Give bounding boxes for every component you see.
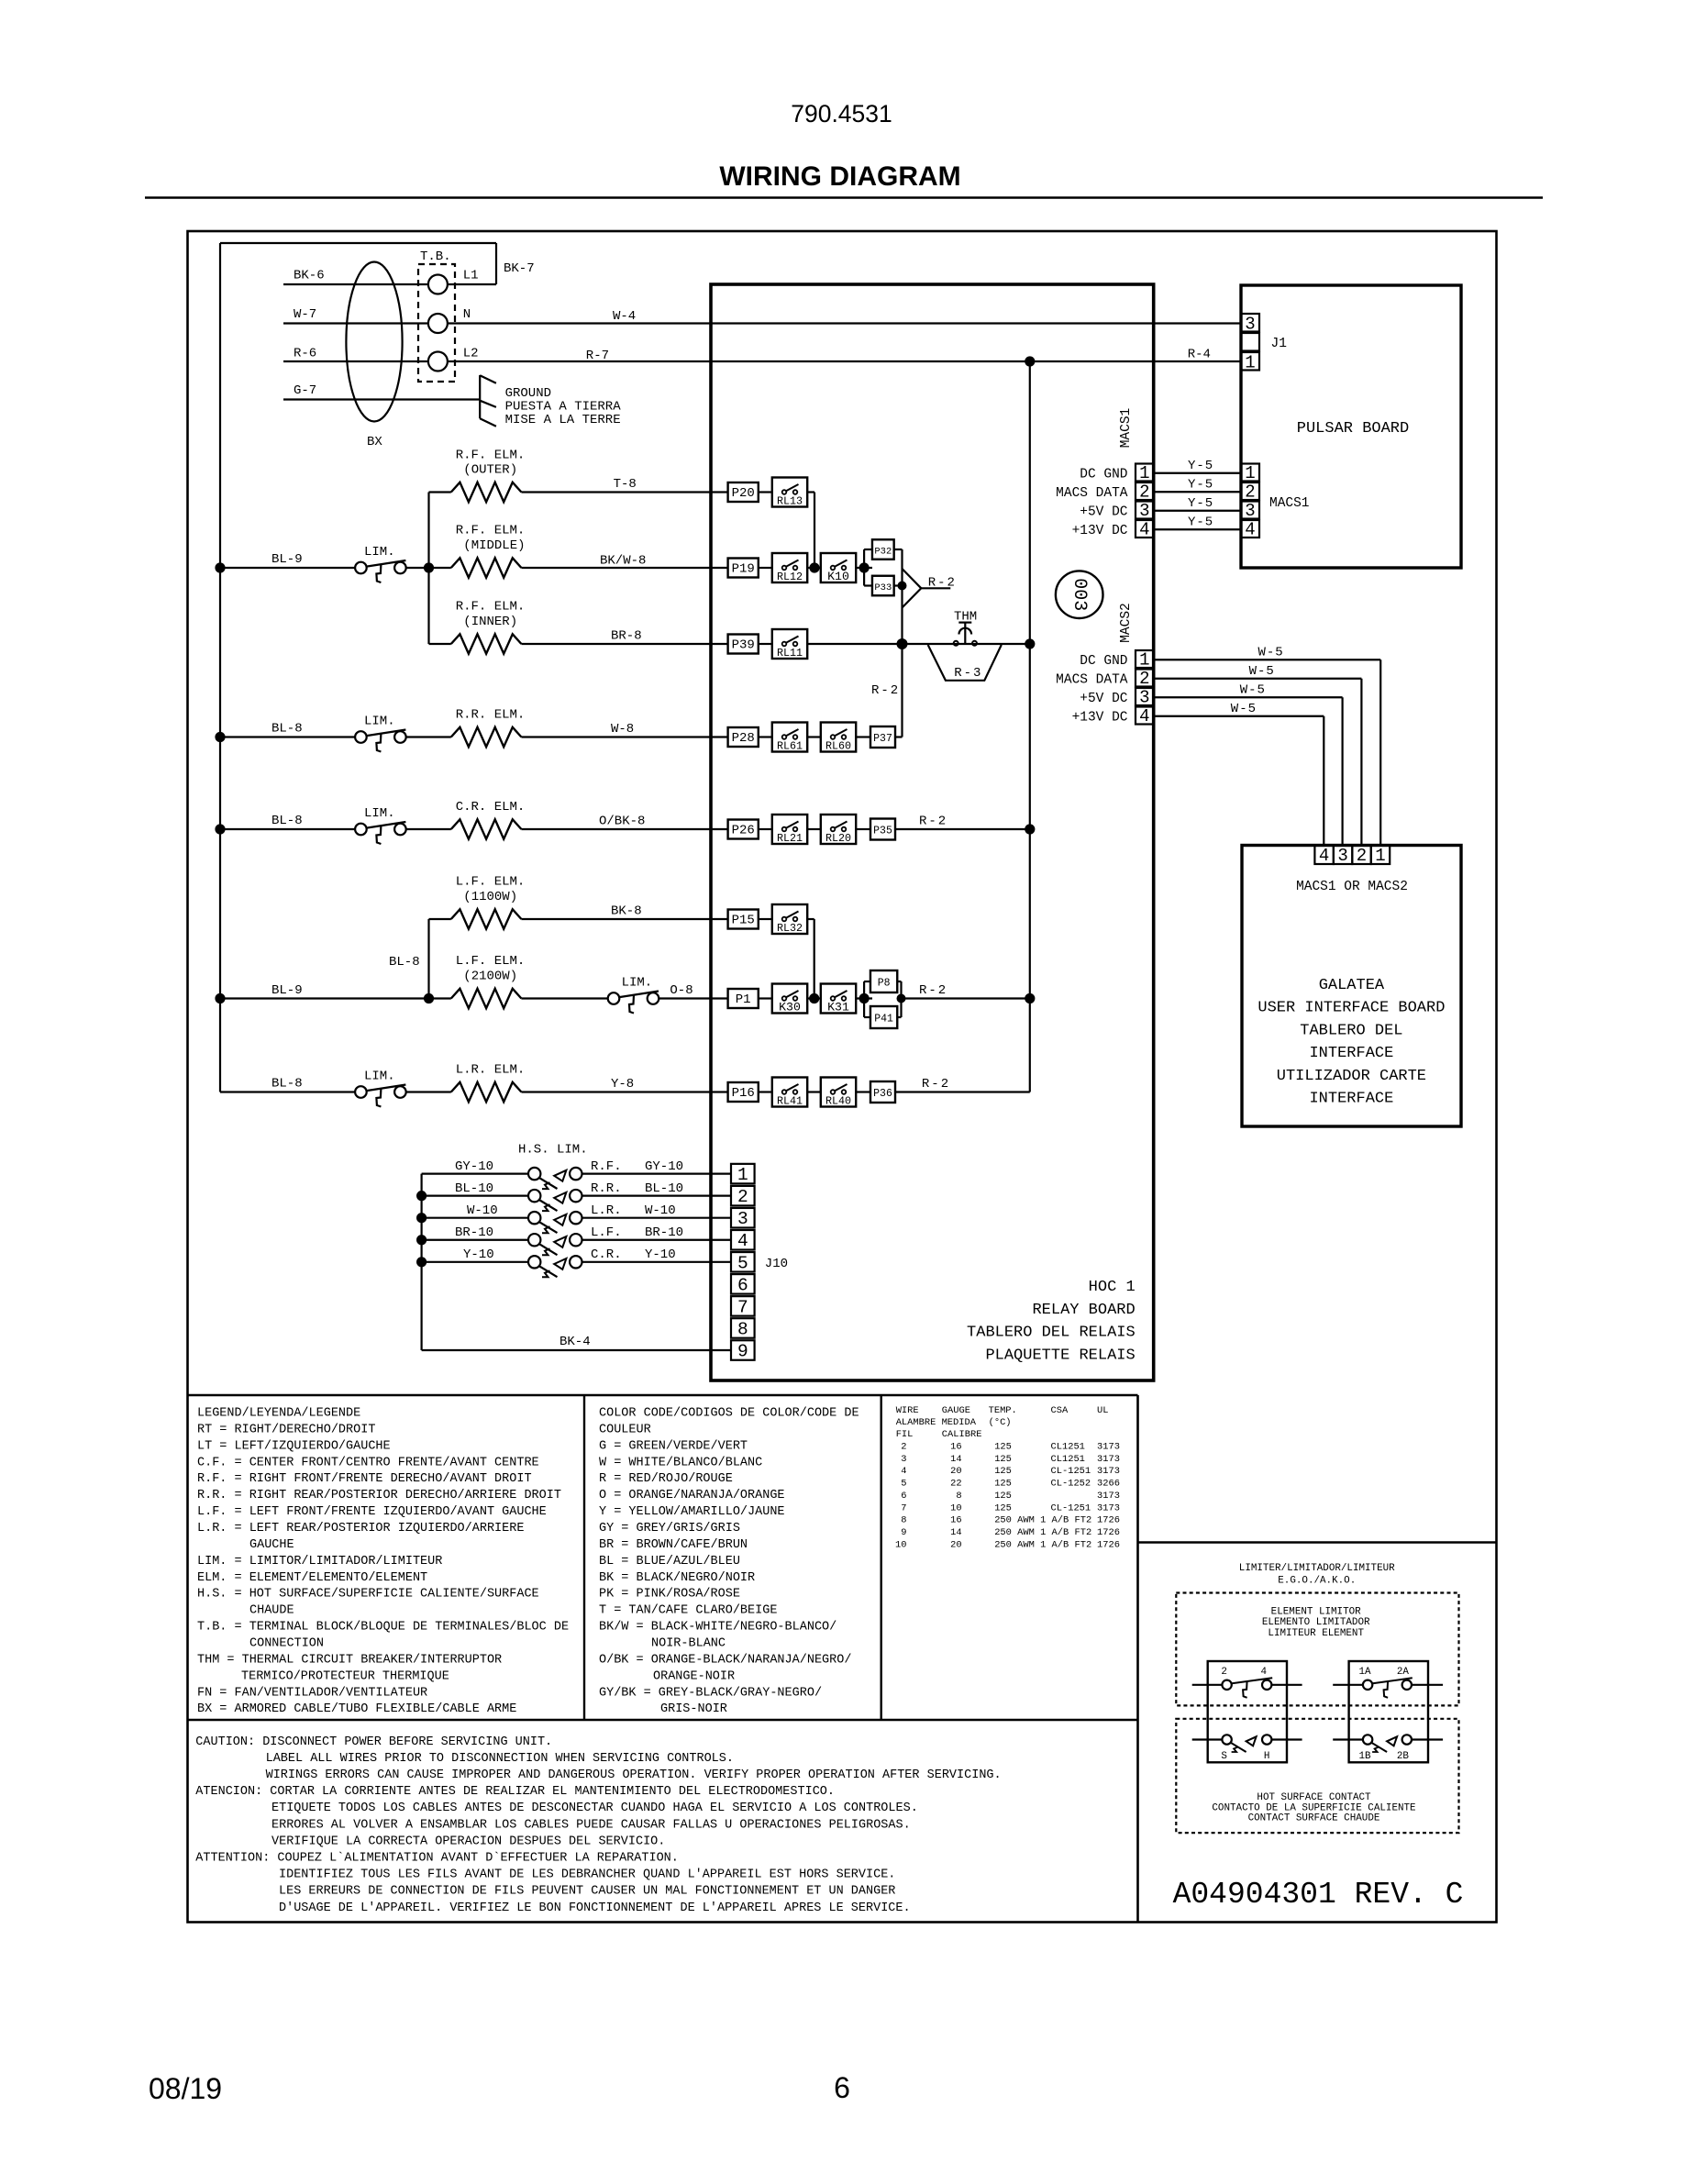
svg-text:W = WHITE/BLANCO/BLANC: W = WHITE/BLANCO/BLANC [599,1456,762,1469]
svg-text:1726: 1726 [1097,1539,1120,1550]
svg-text:LEGEND/LEYENDA/LEGENDE: LEGEND/LEYENDA/LEGENDE [197,1407,360,1421]
svg-text:20: 20 [950,1466,961,1477]
svg-text:BK-4: BK-4 [559,1335,591,1349]
svg-text:ELM. = ELEMENT/ELEMENTO/ELEMEN: ELM. = ELEMENT/ELEMENTO/ELEMENT [197,1571,427,1585]
svg-text:R-2: R-2 [928,576,957,591]
svg-text:LIM.: LIM. [364,715,395,729]
svg-text:R-6: R-6 [294,347,316,361]
svg-text:G = GREEN/VERDE/VERT: G = GREEN/VERDE/VERT [599,1439,748,1453]
svg-text:RL20: RL20 [825,832,851,845]
svg-text:LES ERREURS DE CONNECTION DE F: LES ERREURS DE CONNECTION DE FILS PEUVEN… [279,1885,895,1899]
svg-text:3173: 3173 [1097,1466,1120,1477]
svg-text:7: 7 [737,1297,748,1317]
svg-text:FIL: FIL [896,1429,914,1440]
svg-text:CL-1251: CL-1251 [1051,1466,1091,1477]
svg-text:WIRING DIAGRAM: WIRING DIAGRAM [719,161,960,192]
svg-text:ELEMENTO LIMITADOR: ELEMENTO LIMITADOR [1262,1617,1370,1628]
svg-text:RL40: RL40 [825,1095,851,1108]
svg-text:(2100W): (2100W) [463,969,517,983]
svg-text:VERIFIQUE LA CORRECTA OPERACIO: VERIFIQUE LA CORRECTA OPERACION DESPUES … [271,1835,665,1848]
svg-text:P26: P26 [732,823,755,837]
svg-text:250 AWM 1 A/B FT2: 250 AWM 1 A/B FT2 [994,1527,1091,1538]
svg-text:RL61: RL61 [777,740,803,753]
svg-text:C.R.: C.R. [591,1247,622,1262]
svg-text:N: N [463,307,471,322]
svg-text:GAUCHE: GAUCHE [249,1538,294,1552]
svg-text:W-5: W-5 [1249,664,1275,679]
svg-text:GALATEA: GALATEA [1319,977,1385,994]
svg-text:R.F. ELM.: R.F. ELM. [456,449,526,463]
svg-text:1: 1 [1375,846,1385,866]
svg-text:W-4: W-4 [613,309,636,324]
svg-text:UL: UL [1097,1405,1108,1416]
svg-text:L.F. = LEFT FRONT/FRENTE IZQUI: L.F. = LEFT FRONT/FRENTE IZQUIERDO/AVANT… [197,1505,547,1519]
svg-text:5: 5 [737,1253,748,1273]
svg-text:1: 1 [1245,353,1255,373]
svg-text:D'USAGE DE L'APPAREIL. VERIFIE: D'USAGE DE L'APPAREIL. VERIFIEZ LE BON F… [279,1901,911,1915]
svg-text:2: 2 [1221,1667,1227,1678]
svg-text:BK/W-8: BK/W-8 [600,554,646,569]
svg-text:CL-1252: CL-1252 [1051,1479,1091,1490]
svg-text:R.F. ELM.: R.F. ELM. [456,524,526,538]
svg-text:W-5: W-5 [1240,683,1266,698]
svg-text:O-8: O-8 [670,983,692,998]
svg-text:GY-10: GY-10 [455,1159,493,1174]
svg-text:2: 2 [1357,846,1367,866]
svg-text:3: 3 [1139,501,1149,521]
svg-text:MACS1 OR MACS2: MACS1 OR MACS2 [1296,880,1408,894]
svg-text:8: 8 [901,1515,906,1526]
svg-text:R-2: R-2 [919,983,947,998]
svg-text:Y-5: Y-5 [1188,496,1213,511]
svg-text:1: 1 [1245,463,1255,483]
svg-text:4: 4 [1245,520,1255,540]
svg-text:125: 125 [994,1454,1012,1465]
svg-text:16: 16 [950,1442,961,1453]
svg-text:(OUTER): (OUTER) [463,463,517,478]
svg-text:H.S. = HOT SURFACE/SUPERFICIE: H.S. = HOT SURFACE/SUPERFICIE CALIENTE/S… [197,1588,539,1602]
svg-text:LIM.: LIM. [364,545,395,560]
svg-text:Y-5: Y-5 [1188,478,1213,493]
svg-text:5: 5 [901,1479,906,1490]
svg-text:3: 3 [737,1209,748,1229]
svg-text:BL-10: BL-10 [455,1181,493,1196]
svg-text:9: 9 [737,1341,748,1361]
svg-text:P16: P16 [732,1086,755,1101]
svg-text:+13V DC: +13V DC [1072,711,1128,726]
svg-text:J10: J10 [765,1257,788,1271]
svg-text:8: 8 [956,1491,961,1502]
svg-text:RT = RIGHT/DERECHO/DROIT: RT = RIGHT/DERECHO/DROIT [197,1423,375,1436]
svg-text:BL-9: BL-9 [271,983,303,998]
svg-text:USER INTERFACE BOARD: USER INTERFACE BOARD [1257,1000,1445,1017]
svg-text:BL-9: BL-9 [271,552,303,567]
svg-text:H: H [1264,1751,1270,1762]
svg-text:22: 22 [950,1479,961,1490]
svg-text:14: 14 [950,1454,961,1465]
svg-text:BL-8: BL-8 [389,955,420,970]
svg-text:125: 125 [994,1479,1012,1490]
svg-text:P8: P8 [878,977,891,989]
svg-text:MACS1: MACS1 [1269,496,1310,511]
svg-text:P37: P37 [873,733,892,745]
svg-text:1A: 1A [1358,1667,1371,1678]
svg-text:CHAUDE: CHAUDE [249,1604,294,1618]
svg-text:A04904301 REV. C: A04904301 REV. C [1173,1878,1464,1912]
svg-text:Y-10: Y-10 [463,1247,494,1262]
svg-text:T = TAN/CAFE CLARO/BEIGE: T = TAN/CAFE CLARO/BEIGE [599,1604,777,1618]
svg-text:P32: P32 [874,546,892,557]
svg-text:L2: L2 [463,347,479,361]
svg-text:R.F. ELM.: R.F. ELM. [456,600,526,615]
svg-text:P28: P28 [732,731,755,746]
svg-text:BR = BROWN/CAFE/BRUN: BR = BROWN/CAFE/BRUN [599,1538,748,1552]
svg-text:RL11: RL11 [777,647,803,660]
svg-text:PULSAR BOARD: PULSAR BOARD [1297,420,1409,438]
svg-text:GAUGE: GAUGE [942,1405,970,1416]
svg-text:MACS2: MACS2 [1119,603,1134,643]
svg-text:4: 4 [901,1466,906,1477]
svg-text:HOT SURFACE CONTACT: HOT SURFACE CONTACT [1257,1792,1371,1803]
svg-text:1: 1 [1139,463,1149,483]
svg-text:P15: P15 [732,913,755,927]
svg-text:ETIQUETE TODOS LOS CABLES ANTE: ETIQUETE TODOS LOS CABLES ANTES DE DESCO… [271,1802,918,1815]
svg-text:P41: P41 [874,1013,893,1025]
svg-text:BK = BLACK/NEGRO/NOIR: BK = BLACK/NEGRO/NOIR [599,1571,755,1585]
svg-text:R-4: R-4 [1188,348,1211,362]
svg-text:3173: 3173 [1097,1442,1120,1453]
svg-text:6: 6 [737,1275,748,1295]
svg-text:10: 10 [950,1502,961,1513]
svg-text:RL32: RL32 [777,922,803,935]
svg-text:BL = BLUE/AZUL/BLEU: BL = BLUE/AZUL/BLEU [599,1555,740,1569]
svg-text:4: 4 [1261,1667,1268,1678]
svg-text:RL13: RL13 [777,495,803,508]
svg-text:BL-10: BL-10 [645,1181,683,1196]
svg-text:BK-7: BK-7 [504,261,535,276]
svg-text:WIRE: WIRE [896,1405,919,1416]
svg-text:O/BK-8: O/BK-8 [599,815,645,829]
svg-text:1: 1 [737,1165,748,1185]
svg-text:3173: 3173 [1097,1491,1120,1502]
svg-text:4: 4 [737,1231,748,1251]
svg-text:DC GND: DC GND [1080,654,1127,669]
svg-text:3: 3 [1139,688,1149,708]
svg-text:LIM.: LIM. [364,1070,395,1084]
svg-text:250 AWM 1 A/B FT2: 250 AWM 1 A/B FT2 [994,1515,1091,1526]
svg-text:125: 125 [994,1442,1012,1453]
svg-text:CSA: CSA [1051,1405,1069,1416]
svg-text:MACS DATA: MACS DATA [1056,673,1128,688]
svg-text:Y-8: Y-8 [611,1077,634,1092]
svg-text:P33: P33 [874,582,892,593]
svg-text:RL21: RL21 [777,832,803,845]
svg-text:2B: 2B [1397,1751,1410,1762]
svg-text:BL-8: BL-8 [271,814,303,828]
svg-text:TERMICO/PROTECTEUR THERMIQUE: TERMICO/PROTECTEUR THERMIQUE [241,1669,449,1683]
svg-text:CAUTION: DISCONNECT POWER BEFO: CAUTION: DISCONNECT POWER BEFORE SERVICI… [195,1735,552,1749]
svg-text:W-5: W-5 [1258,646,1284,660]
svg-text:GY-10: GY-10 [645,1159,683,1174]
svg-text:BR-10: BR-10 [455,1225,493,1240]
svg-text:(INNER): (INNER) [463,615,517,629]
svg-text:ATTENTION: COUPEZ L`ALIMENTATI: ATTENTION: COUPEZ L`ALIMENTATION AVANT D… [195,1852,679,1866]
svg-text:1726: 1726 [1097,1527,1120,1538]
svg-text:CL1251: CL1251 [1051,1442,1085,1453]
svg-text:R-2: R-2 [922,1077,950,1092]
svg-text:TABLERO DEL: TABLERO DEL [1300,1022,1402,1039]
svg-text:3: 3 [1337,846,1347,866]
svg-text:(MIDDLE): (MIDDLE) [463,538,525,553]
svg-text:LIMITEUR ELEMENT: LIMITEUR ELEMENT [1268,1628,1364,1639]
svg-text:W-5: W-5 [1231,702,1257,716]
svg-text:P36: P36 [873,1088,892,1100]
svg-text:(°C): (°C) [989,1417,1012,1428]
svg-text:T.B. = TERMINAL BLOCK/BLOQUE D: T.B. = TERMINAL BLOCK/BLOQUE DE TERMINAL… [197,1621,569,1635]
svg-text:GY/BK = GREY-BLACK/GRAY-NEGRO/: GY/BK = GREY-BLACK/GRAY-NEGRO/ [599,1686,822,1700]
svg-text:R-2: R-2 [871,683,900,698]
svg-text:S: S [1221,1751,1227,1762]
svg-text:RL12: RL12 [777,571,803,583]
svg-text:BL-8: BL-8 [271,1077,303,1092]
svg-text:J1: J1 [1271,337,1287,351]
svg-text:ERRORES AL VOLVER A ENSAMBLAR: ERRORES AL VOLVER A ENSAMBLAR LOS CABLES… [271,1818,911,1832]
svg-text:Y-10: Y-10 [645,1247,676,1262]
svg-text:L.R. ELM.: L.R. ELM. [456,1063,526,1078]
svg-text:RL60: RL60 [825,740,851,753]
svg-text:CONTACTO DE LA SUPERFICIE CALI: CONTACTO DE LA SUPERFICIE CALIENTE [1212,1802,1415,1813]
svg-text:10: 10 [895,1539,906,1550]
svg-text:IDENTIFIEZ TOUS LES FILS AVANT: IDENTIFIEZ TOUS LES FILS AVANT DE LES DE… [279,1868,895,1882]
svg-text:14: 14 [950,1527,961,1538]
svg-text:P1: P1 [736,992,751,1007]
svg-text:MISE A LA TERRE: MISE A LA TERRE [505,413,621,427]
svg-text:ALAMBRE MEDIDA: ALAMBRE MEDIDA [896,1417,977,1428]
svg-text:6: 6 [834,2071,850,2104]
svg-text:RELAY BOARD: RELAY BOARD [1032,1302,1135,1319]
svg-text:+5V DC: +5V DC [1080,505,1128,520]
svg-text:W-10: W-10 [645,1203,676,1218]
svg-text:R.R. = RIGHT REAR/POSTERIOR DE: R.R. = RIGHT REAR/POSTERIOR DERECHO/ARRI… [197,1489,561,1502]
svg-text:BX = ARMORED CABLE/TUBO FLEXIB: BX = ARMORED CABLE/TUBO FLEXIBLE/CABLE A… [197,1702,516,1716]
svg-text:125: 125 [994,1502,1012,1513]
svg-text:R-3: R-3 [954,666,982,681]
svg-text:THM: THM [954,609,977,624]
svg-text:GY = GREY/GRIS/GRIS: GY = GREY/GRIS/GRIS [599,1522,740,1535]
svg-text:L.R. = LEFT REAR/POSTERIOR IZQ: L.R. = LEFT REAR/POSTERIOR IZQUIERDO/ARR… [197,1522,524,1535]
svg-text:MACS1: MACS1 [1119,408,1134,449]
svg-text:G-7: G-7 [294,383,316,398]
svg-text:INTERFACE: INTERFACE [1309,1045,1393,1062]
svg-text:LIM.: LIM. [364,806,395,821]
svg-text:P35: P35 [873,825,892,837]
svg-text:P20: P20 [732,486,755,501]
svg-text:RL41: RL41 [777,1095,803,1108]
svg-text:THM = THERMAL CIRCUIT BREAKER/: THM = THERMAL CIRCUIT BREAKER/INTERRUPTO… [197,1653,502,1667]
svg-text:L.R.: L.R. [591,1203,622,1218]
svg-text:3173: 3173 [1097,1502,1120,1513]
svg-text:3: 3 [1245,501,1255,521]
svg-text:O = ORANGE/NARANJA/ORANGE: O = ORANGE/NARANJA/ORANGE [599,1489,785,1502]
svg-text:250 AWM 1 A/B FT2: 250 AWM 1 A/B FT2 [994,1539,1091,1550]
svg-text:2A: 2A [1397,1667,1410,1678]
svg-text:W-7: W-7 [294,307,316,322]
svg-text:6: 6 [901,1491,906,1502]
svg-text:2: 2 [1139,669,1149,689]
svg-text:4: 4 [1139,520,1149,540]
svg-text:PLAQUETTE RELAIS: PLAQUETTE RELAIS [985,1347,1135,1364]
svg-text:BK/W = BLACK-WHITE/NEGRO-BLANC: BK/W = BLACK-WHITE/NEGRO-BLANCO/ [599,1621,836,1635]
svg-text:08/19: 08/19 [149,2072,222,2105]
svg-text:1: 1 [1139,650,1149,671]
svg-text:COULEUR: COULEUR [599,1423,651,1436]
svg-text:BX: BX [367,435,382,449]
svg-text:125: 125 [994,1491,1012,1502]
svg-text:MACS DATA: MACS DATA [1056,486,1128,501]
svg-text:R.R.: R.R. [591,1181,622,1196]
svg-text:L.F.: L.F. [591,1225,622,1240]
svg-text:BK-6: BK-6 [294,269,325,283]
svg-text:L.F. ELM.: L.F. ELM. [456,875,526,890]
svg-text:C.R. ELM.: C.R. ELM. [456,800,526,815]
svg-text:LABEL ALL WIRES PRIOR TO DISCO: LABEL ALL WIRES PRIOR TO DISCONNECTION W… [266,1752,734,1766]
svg-text:R-7: R-7 [586,349,609,363]
svg-text:7: 7 [901,1502,906,1513]
svg-text:COLOR CODE/CODIGOS DE COLOR/CO: COLOR CODE/CODIGOS DE COLOR/CODE DE [599,1407,859,1421]
svg-text:CONTACT SURFACE CHAUDE: CONTACT SURFACE CHAUDE [1248,1813,1380,1824]
svg-text:8: 8 [737,1319,748,1339]
svg-text:L1: L1 [463,269,479,283]
svg-text:2: 2 [737,1187,748,1207]
svg-text:2: 2 [1245,482,1255,503]
svg-text:FN = FAN/VENTILADOR/VENTILATEU: FN = FAN/VENTILADOR/VENTILATEUR [197,1686,427,1700]
svg-text:+13V DC: +13V DC [1072,524,1128,538]
svg-text:T-8: T-8 [614,477,637,492]
svg-text:NOIR-BLANC: NOIR-BLANC [651,1637,726,1651]
svg-text:HOC 1: HOC 1 [1089,1279,1136,1296]
svg-text:3: 3 [901,1454,906,1465]
svg-text:L.F. ELM.: L.F. ELM. [456,954,526,969]
svg-text:1726: 1726 [1097,1515,1120,1526]
svg-text:4: 4 [1319,846,1329,866]
svg-text:BK-8: BK-8 [611,904,642,919]
svg-text:R = RED/ROJO/ROUGE: R = RED/ROJO/ROUGE [599,1472,733,1486]
svg-text:Y = YELLOW/AMARILLO/JAUNE: Y = YELLOW/AMARILLO/JAUNE [599,1505,785,1519]
svg-text:R.F. = RIGHT FRONT/FRENTE DERE: R.F. = RIGHT FRONT/FRENTE DERECHO/AVANT … [197,1472,532,1486]
svg-text:R-2: R-2 [919,815,947,829]
svg-text:ATENCION: CORTAR LA CORRIENTE: ATENCION: CORTAR LA CORRIENTE ANTES DE R… [195,1785,835,1799]
svg-text:20: 20 [950,1539,961,1550]
svg-text:LIM. = LIMITOR/LIMITADOR/LIMIT: LIM. = LIMITOR/LIMITADOR/LIMITEUR [197,1555,442,1569]
svg-text:125: 125 [994,1466,1012,1477]
svg-text:CONNECTION: CONNECTION [249,1637,324,1651]
svg-text:Y-5: Y-5 [1188,516,1213,530]
svg-text:R.R. ELM.: R.R. ELM. [456,708,526,723]
svg-text:R.F.: R.F. [591,1159,622,1174]
svg-text:9: 9 [901,1527,906,1538]
svg-text:3266: 3266 [1097,1479,1120,1490]
svg-text:ELEMENT LIMITOR: ELEMENT LIMITOR [1271,1607,1361,1618]
svg-text:C.F. = CENTER FRONT/CENTRO FRE: C.F. = CENTER FRONT/CENTRO FRENTE/AVANT … [197,1456,539,1469]
svg-text:(1100W): (1100W) [463,890,517,904]
svg-text:GRIS-NOIR: GRIS-NOIR [660,1702,727,1716]
svg-text:O/BK = ORANGE-BLACK/NARANJA/NE: O/BK = ORANGE-BLACK/NARANJA/NEGRO/ [599,1653,851,1667]
svg-text:E.G.O./A.K.O.: E.G.O./A.K.O. [1278,1576,1356,1587]
svg-text:BL-8: BL-8 [271,722,303,737]
svg-text:K30: K30 [779,1001,801,1014]
svg-text:K10: K10 [827,570,849,583]
svg-text:2: 2 [1139,482,1149,503]
svg-text:3: 3 [1245,315,1255,335]
svg-text:P19: P19 [732,561,755,576]
svg-text:4: 4 [1139,706,1149,726]
svg-text:WIRINGS ERRORS CAN CAUSE IMPRO: WIRINGS ERRORS CAN CAUSE IMPROPER AND DA… [266,1768,1002,1782]
svg-text:TABLERO DEL RELAIS: TABLERO DEL RELAIS [967,1325,1136,1342]
svg-text:CL1251: CL1251 [1051,1454,1085,1465]
svg-text:H.S. LIM.: H.S. LIM. [518,1143,588,1158]
svg-text:BR-8: BR-8 [611,629,642,644]
svg-text:CL-1251: CL-1251 [1051,1502,1091,1513]
svg-text:16: 16 [950,1515,961,1526]
svg-text:LT = LEFT/IZQUIERDO/GAUCHE: LT = LEFT/IZQUIERDO/GAUCHE [197,1439,391,1453]
svg-text:T.B.: T.B. [420,249,451,264]
svg-text:ORANGE-NOIR: ORANGE-NOIR [653,1669,735,1683]
svg-text:Y-5: Y-5 [1188,459,1213,473]
svg-text:790.4531: 790.4531 [791,100,892,127]
svg-text:W-10: W-10 [467,1203,498,1218]
svg-text:DC GND: DC GND [1080,468,1127,482]
svg-text:2: 2 [901,1442,906,1453]
svg-text:UTILIZADOR CARTE: UTILIZADOR CARTE [1277,1068,1426,1085]
svg-text:LIM.: LIM. [622,976,653,991]
svg-text:+5V DC: +5V DC [1080,692,1128,706]
svg-text:003: 003 [1069,578,1090,611]
svg-text:P39: P39 [732,637,755,652]
svg-text:W-8: W-8 [611,722,634,737]
svg-text:PK = PINK/ROSA/ROSE: PK = PINK/ROSA/ROSE [599,1588,740,1602]
svg-text:3173: 3173 [1097,1454,1120,1465]
svg-text:LIMITER/LIMITADOR/LIMITEUR: LIMITER/LIMITADOR/LIMITEUR [1239,1563,1395,1574]
svg-text:INTERFACE: INTERFACE [1309,1091,1393,1108]
svg-text:K31: K31 [827,1001,849,1014]
svg-text:BR-10: BR-10 [645,1225,683,1240]
svg-text:TEMP.: TEMP. [989,1405,1017,1416]
svg-text:1B: 1B [1358,1751,1371,1762]
svg-text:CALIBRE: CALIBRE [942,1429,982,1440]
